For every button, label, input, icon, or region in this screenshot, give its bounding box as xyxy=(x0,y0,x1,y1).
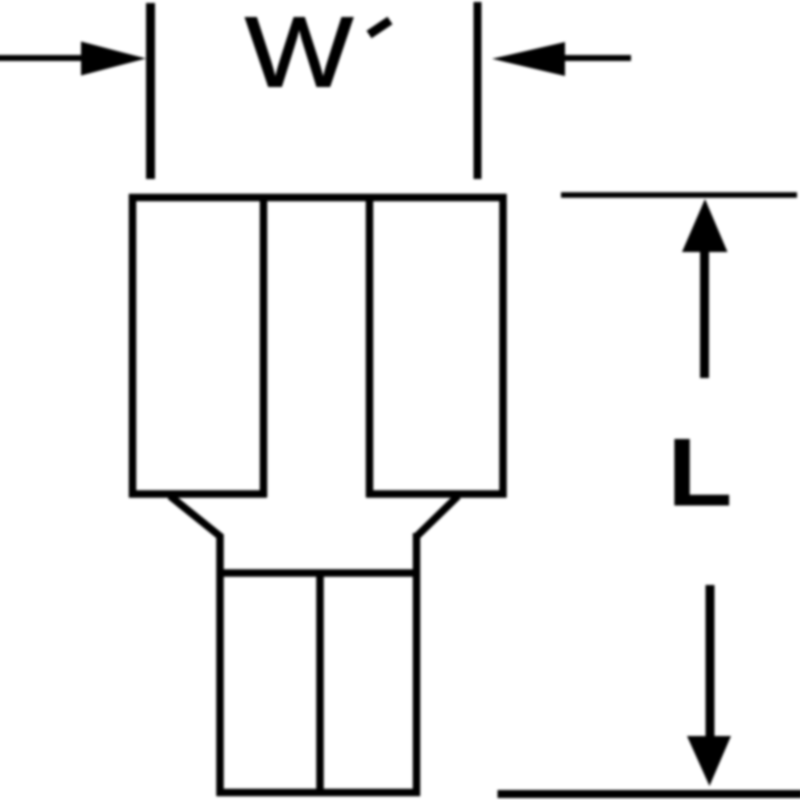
label L xyxy=(667,418,732,526)
prime tick xyxy=(369,21,390,35)
arrowhead left (points right) xyxy=(81,42,146,76)
wire: L top extension line xyxy=(561,192,797,198)
wire: barrel top seam xyxy=(217,569,420,577)
svg-text:W: W xyxy=(245,0,354,108)
wire: left arrow shaft of W' dimension xyxy=(0,55,86,61)
wire: left taper slope xyxy=(170,496,221,537)
label W' xyxy=(245,0,354,108)
wire: left pocket bottom xyxy=(129,490,267,498)
arrowhead right (points left) xyxy=(492,42,565,76)
wire: barrel left side xyxy=(216,534,224,796)
wire: channel right vertical xyxy=(366,198,374,498)
wire: right arrow shaft of W' dimension xyxy=(562,55,631,61)
wire: right extension line xyxy=(474,2,482,179)
wire: left extension line xyxy=(146,3,155,179)
wire: right pocket bottom xyxy=(366,490,507,498)
wire: body outer left side xyxy=(129,194,137,498)
wire: body outer right side xyxy=(499,194,507,498)
wire: barrel bottom xyxy=(217,789,421,797)
wire: body top line xyxy=(129,194,507,202)
arrowhead down xyxy=(687,736,731,786)
wire: barrel middle seam xyxy=(316,573,324,793)
wire: channel left vertical xyxy=(260,198,268,498)
wire: up arrow shaft xyxy=(700,250,709,378)
arrowhead up xyxy=(682,199,728,252)
svg-text:L: L xyxy=(667,418,732,526)
wire: L bottom extension line xyxy=(498,790,800,798)
wire: down arrow shaft xyxy=(706,585,715,738)
wire: barrel right side xyxy=(413,533,421,796)
wire: right taper slope xyxy=(417,496,458,536)
